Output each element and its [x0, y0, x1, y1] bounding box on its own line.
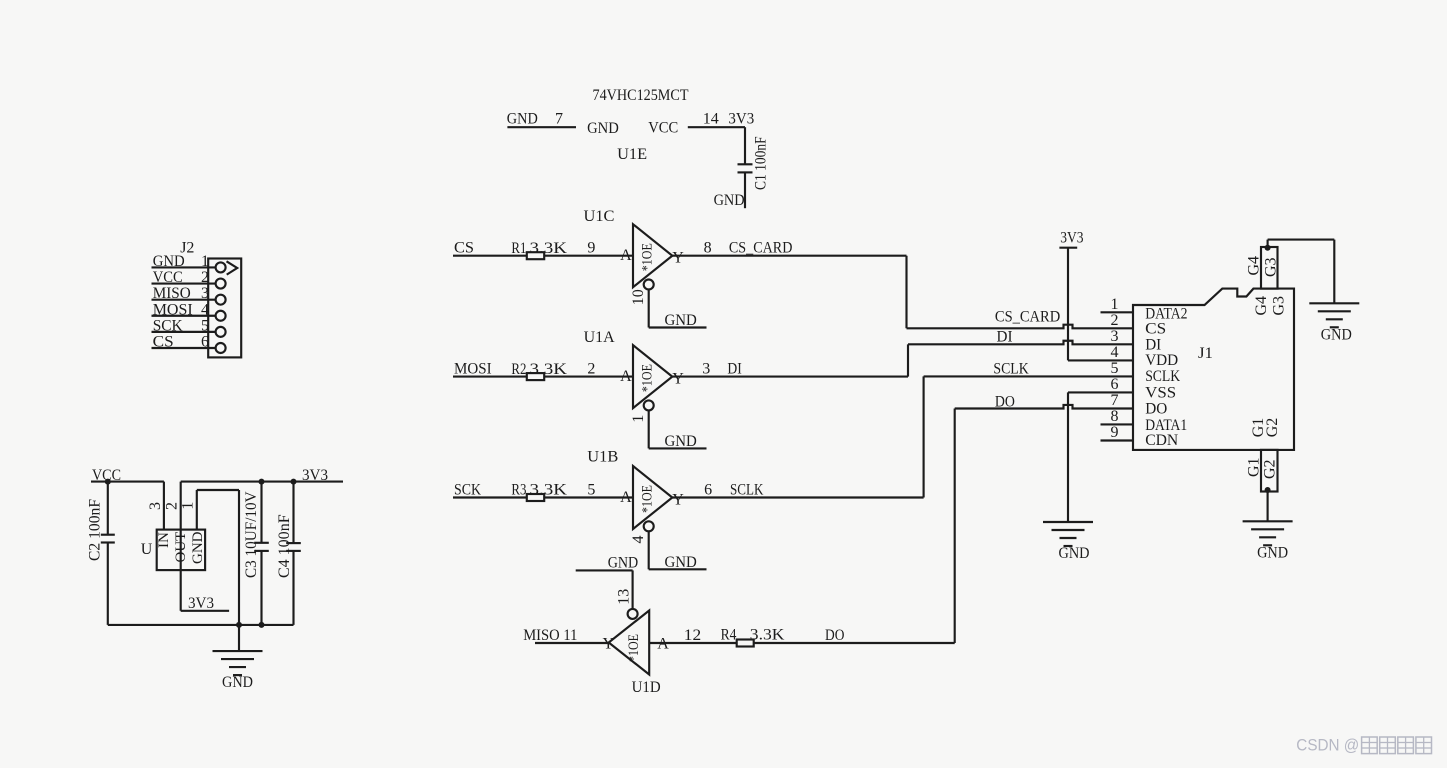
svg-text:9: 9 [1111, 424, 1119, 441]
svg-text:Y: Y [672, 492, 684, 509]
svg-text:2: 2 [1111, 312, 1119, 329]
J2 pin 5 wire and label SCK [152, 317, 226, 337]
svg-text:1: 1 [180, 502, 197, 510]
capacitor C1 100nF [738, 127, 753, 208]
J1 pin 1 DATA2 [1101, 296, 1188, 323]
buffer U1C triangle [620, 224, 684, 287]
svg-text:DO: DO [1145, 401, 1167, 418]
wire 3V3 to VDD pin 4 [1068, 248, 1133, 361]
svg-text:A: A [620, 247, 632, 264]
svg-text:CS_CARD: CS_CARD [995, 309, 1060, 326]
svg-text:4: 4 [1111, 344, 1119, 361]
svg-text:*1OE: *1OE [626, 634, 642, 662]
svg-text:2: 2 [164, 502, 181, 510]
svg-text:GND: GND [190, 531, 206, 564]
designator U1B [587, 449, 618, 466]
label C3 10UF/10V [243, 491, 260, 578]
svg-text:SCK: SCK [454, 482, 481, 499]
net label GND enable U1C [665, 312, 697, 329]
svg-text:VDD: VDD [1145, 352, 1178, 369]
resistor R1 3.3K [511, 240, 567, 259]
svg-text:GND: GND [1059, 545, 1090, 562]
svg-text:13: 13 [616, 589, 633, 605]
svg-text:C3 10UF/10V: C3 10UF/10V [243, 491, 260, 578]
wire MOSI input [453, 376, 527, 378]
svg-text:GND: GND [714, 192, 745, 209]
svg-text:IN: IN [156, 532, 172, 548]
connector J1 body (SD card outline) [1133, 289, 1294, 450]
svg-text:G2: G2 [1264, 418, 1281, 438]
net label 3V3 pin 14 [703, 111, 754, 128]
svg-text:3: 3 [702, 360, 710, 377]
wire SCK input [453, 496, 527, 498]
svg-text:GND: GND [587, 120, 619, 137]
J1 pin 5 SCLK [1111, 360, 1181, 385]
svg-text:C1 100nF: C1 100nF [753, 136, 770, 190]
svg-text:MISO 11: MISO 11 [523, 627, 577, 644]
J1 mounting pins G4 G3 top strip [1246, 247, 1288, 316]
watermark CJK glyph strokes [1362, 737, 1432, 754]
wire DI to J1 pin 3 with hop [908, 329, 1133, 346]
wire 3V3 rail [181, 479, 343, 485]
svg-text:GND: GND [507, 111, 538, 128]
net label MOSI [454, 361, 492, 378]
designator U1E [617, 146, 647, 163]
svg-text:R4: R4 [721, 627, 737, 644]
net label VCC [92, 467, 121, 484]
label C1 100nF [753, 136, 770, 190]
svg-text:4: 4 [201, 301, 209, 318]
net label GND for U1D enable [608, 555, 639, 572]
wire enable pin 10 to GND [649, 290, 707, 328]
svg-text:G4: G4 [1253, 296, 1270, 316]
svg-text:2: 2 [587, 360, 595, 377]
regulator U pin 1 wire [180, 490, 240, 625]
wire SCLK output pin 6 [672, 376, 923, 498]
svg-text:3.3K: 3.3K [750, 627, 785, 644]
svg-text:6: 6 [704, 481, 712, 498]
svg-text:2: 2 [201, 269, 209, 286]
wire SCLK to J1 pin 5 [924, 361, 1133, 378]
U1A enable bubble pin 1 [630, 400, 654, 422]
J1 mounting pins G1 G2 bottom strip [1246, 418, 1282, 492]
svg-text:GND: GND [153, 253, 185, 270]
svg-text:GND: GND [665, 312, 697, 329]
svg-text:5: 5 [1111, 360, 1119, 377]
svg-text:3.3K: 3.3K [530, 240, 568, 257]
svg-text:*1OE: *1OE [640, 485, 656, 513]
wire pin 7 U1E [507, 126, 576, 128]
svg-text:CSDN @: CSDN @ [1296, 736, 1359, 755]
wire resistor to pin 2 [544, 360, 633, 377]
svg-text:DI: DI [997, 329, 1013, 346]
svg-text:74VHC125MCT: 74VHC125MCT [593, 87, 689, 104]
watermark CSDN [1296, 736, 1359, 755]
net label CS [454, 240, 474, 257]
svg-text:DO: DO [825, 627, 844, 644]
svg-text:U1B: U1B [587, 449, 618, 466]
svg-text:CS: CS [454, 240, 474, 257]
svg-text:GND: GND [608, 555, 639, 572]
J1 pin 3 DI [1111, 328, 1162, 354]
label C2 100nF [87, 499, 104, 561]
regulator U pin 3 wire [147, 482, 164, 530]
svg-text:A: A [620, 489, 632, 506]
wire ground rail [108, 622, 294, 651]
net label GND at C1 [714, 192, 745, 209]
resistor R3 3.3K [511, 482, 567, 501]
svg-text:7: 7 [555, 111, 563, 128]
svg-text:SCLK: SCLK [1145, 368, 1180, 385]
label C4 100nF [276, 514, 293, 578]
svg-text:SCLK: SCLK [730, 481, 764, 498]
ground symbol below J1 [1243, 521, 1293, 561]
wire GND to U1D enable pin 13 [576, 570, 633, 609]
svg-text:Y: Y [672, 250, 684, 267]
svg-text:MOSI: MOSI [153, 301, 193, 318]
svg-text:4: 4 [630, 536, 647, 544]
svg-text:G1: G1 [1246, 457, 1263, 477]
svg-text:GND: GND [665, 554, 697, 571]
svg-text:VSS: VSS [1145, 385, 1176, 402]
power part U1E pin names [587, 120, 678, 138]
capacitor C4 100nF [286, 482, 301, 625]
svg-text:1: 1 [630, 415, 647, 423]
svg-text:CDN: CDN [1145, 432, 1178, 449]
svg-text:14: 14 [703, 111, 719, 128]
svg-text:CS: CS [1145, 321, 1166, 338]
svg-text:SCK: SCK [153, 317, 183, 334]
svg-text:R3: R3 [511, 482, 526, 499]
J1 pin 9 CDN [1101, 424, 1179, 449]
svg-text:C4 100nF: C4 100nF [276, 514, 293, 578]
svg-text:3: 3 [1111, 328, 1119, 345]
wire VSS pin 6 to GND [1068, 392, 1133, 522]
svg-text:OUT: OUT [173, 532, 189, 563]
wire DO from R4 [754, 409, 955, 645]
svg-text:G3: G3 [1263, 257, 1280, 277]
svg-text:GND: GND [1321, 326, 1352, 343]
capacitor C2 100nF [101, 482, 115, 625]
J2 pin 3 wire and label MISO [152, 285, 226, 305]
designator U1A [584, 329, 615, 346]
wire VCC rail [91, 479, 164, 485]
svg-text:MISO: MISO [153, 285, 191, 302]
U1B enable bubble pin 4 [630, 521, 654, 543]
buffer U1D triangle [603, 611, 670, 675]
svg-text:CS_CARD: CS_CARD [729, 240, 793, 257]
svg-text:5: 5 [587, 481, 595, 498]
ground symbol right of J1 [1309, 303, 1359, 343]
svg-text:3.3K: 3.3K [530, 482, 568, 499]
svg-text:*1OE: *1OE [640, 364, 656, 392]
svg-text:VCC: VCC [648, 120, 678, 137]
svg-text:7: 7 [1111, 392, 1119, 409]
regulator U pin 2 wire [164, 482, 181, 611]
svg-text:9: 9 [587, 240, 595, 257]
IC title 74VHC125MCT [593, 87, 689, 104]
svg-text:U1D: U1D [632, 679, 661, 696]
svg-text:1: 1 [201, 253, 209, 270]
J2 pin 2 wire and label VCC [152, 269, 226, 289]
svg-text:*1OE: *1OE [640, 243, 656, 271]
wire G1 G2 to GND [1265, 487, 1271, 521]
net label GND enable U1A [665, 433, 697, 450]
J2 pin 4 wire and label MOSI [152, 301, 226, 321]
designator J2 [180, 239, 194, 256]
ground symbol regulator [213, 651, 263, 691]
svg-text:A: A [620, 368, 632, 385]
svg-text:G3: G3 [1271, 296, 1288, 316]
designator J1 [1198, 345, 1213, 362]
svg-text:VCC: VCC [153, 269, 183, 286]
wire U1D output pin 12 to R4 [649, 627, 737, 644]
designator U1C [584, 208, 615, 225]
svg-text:3V3: 3V3 [302, 467, 328, 484]
svg-text:U: U [141, 541, 153, 558]
svg-text:6: 6 [201, 334, 209, 351]
svg-text:3V3: 3V3 [1060, 229, 1083, 246]
net label SCK [454, 482, 481, 499]
svg-text:DI: DI [727, 360, 741, 377]
wire resistor to pin 5 [544, 481, 633, 498]
svg-text:8: 8 [1111, 408, 1119, 425]
wire pin 14 U1E [688, 126, 745, 128]
wire CS input [453, 255, 527, 257]
J2 pin 1 wire and label GND [152, 253, 226, 273]
svg-text:3: 3 [201, 285, 209, 302]
J1 pin 4 VDD [1111, 344, 1179, 369]
resistor R2 3.3K [511, 361, 567, 380]
designator U1D [632, 679, 661, 696]
net label 3V3 right [302, 467, 328, 484]
svg-text:12: 12 [684, 627, 701, 644]
svg-text:SCLK: SCLK [993, 361, 1029, 378]
svg-text:3: 3 [147, 502, 164, 510]
svg-text:1: 1 [1111, 296, 1119, 313]
svg-text:C2 100nF: C2 100nF [87, 499, 104, 561]
net label MISO pin 11 [523, 627, 577, 644]
svg-text:GND: GND [1257, 544, 1288, 561]
net label GND pin 7 U1E [507, 111, 563, 128]
svg-text:3V3: 3V3 [728, 111, 754, 128]
svg-text:5: 5 [201, 317, 209, 334]
J1 pin 7 DO [1111, 392, 1168, 418]
capacitor C3 10UF/10V [254, 482, 269, 625]
svg-text:U1C: U1C [584, 208, 615, 225]
J1 pin 6 VSS [1111, 376, 1177, 402]
svg-text:G4: G4 [1246, 256, 1263, 276]
regulator U body [141, 530, 206, 571]
svg-text:U1A: U1A [584, 329, 615, 346]
svg-text:3.3K: 3.3K [530, 361, 568, 378]
buffer U1B triangle [620, 466, 684, 529]
svg-text:GND: GND [222, 674, 253, 691]
net label GND enable U1B [665, 554, 697, 571]
svg-text:R1: R1 [511, 240, 526, 257]
resistor R4 3.3K [721, 627, 785, 647]
ground symbol VSS [1043, 522, 1093, 562]
svg-text:8: 8 [704, 240, 712, 257]
wire G4 G3 to GND [1265, 240, 1335, 304]
J1 pin 2 CS [1111, 312, 1167, 338]
svg-text:G2: G2 [1262, 459, 1279, 479]
wire MISO input U1D [535, 642, 609, 644]
svg-text:6: 6 [1111, 376, 1119, 393]
svg-text:MOSI: MOSI [454, 361, 492, 378]
svg-text:10: 10 [630, 289, 647, 305]
wire DI output pin 3 [672, 344, 908, 377]
J1 pin 8 DATA1 [1101, 408, 1188, 434]
svg-text:U1E: U1E [617, 146, 647, 163]
svg-text:J1: J1 [1198, 345, 1213, 362]
wire DO to J1 pin 7 with hop [955, 394, 1133, 411]
power symbol 3V3 [1059, 229, 1083, 247]
U1D enable bubble pin 13 [616, 589, 638, 619]
wire enable pin 1 to GND [649, 410, 707, 448]
wire enable pin 4 to GND [649, 531, 707, 569]
J2 pin 6 wire and label CS [152, 334, 226, 354]
svg-text:R2: R2 [511, 361, 526, 378]
svg-text:3V3: 3V3 [188, 595, 214, 612]
J2 pin 1 chevron marker [227, 261, 238, 274]
svg-text:CS: CS [153, 334, 174, 351]
net label 3V3 below regulator [181, 595, 229, 612]
svg-text:Y: Y [672, 371, 684, 388]
U1C enable bubble pin 10 [630, 280, 654, 306]
wire CS_CARD output pin 8 [672, 240, 906, 329]
buffer U1A triangle [620, 345, 684, 408]
connector J2 body [208, 259, 241, 358]
svg-text:GND: GND [665, 433, 697, 450]
wire CS_CARD to J1 pin 2 with hop [907, 309, 1134, 329]
wire resistor to pin 9 [544, 240, 633, 257]
